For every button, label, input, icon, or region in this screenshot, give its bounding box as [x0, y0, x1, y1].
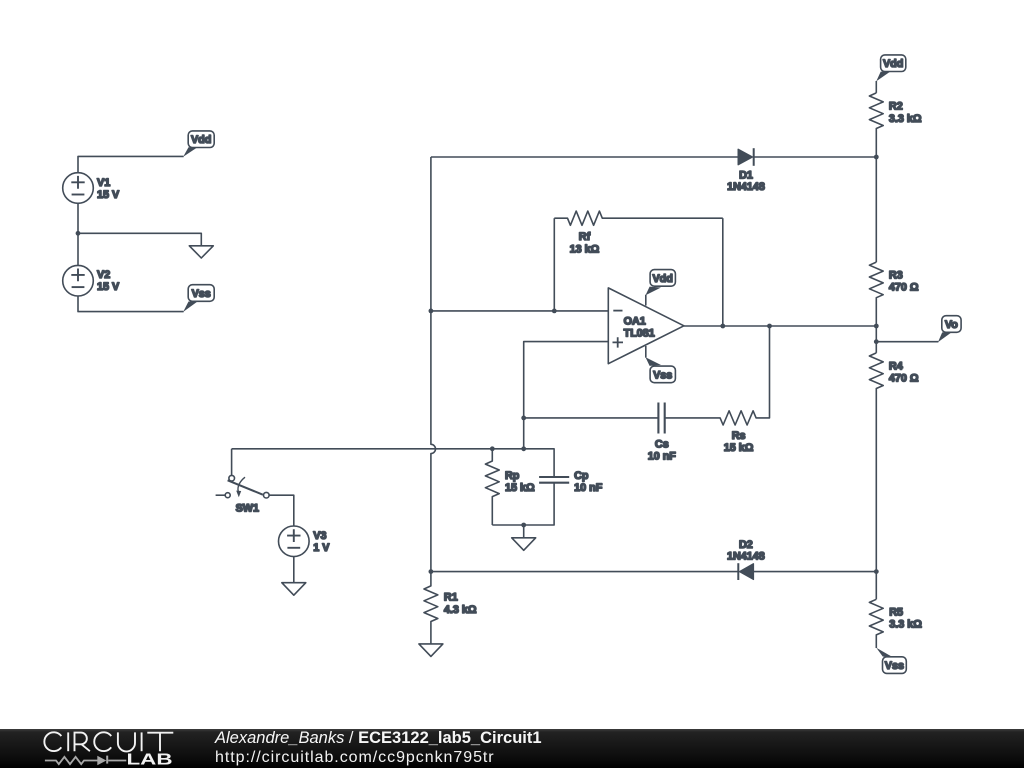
- svg-text:13 kΩ: 13 kΩ: [570, 243, 600, 255]
- label Cp 10 nF: [574, 470, 603, 494]
- svg-text:1N4148: 1N4148: [727, 550, 765, 562]
- svg-text:4.3 kΩ: 4.3 kΩ: [444, 604, 477, 616]
- wire top rail right part: [754, 156, 877, 158]
- label D2 1N4148: [727, 539, 765, 563]
- ground: [419, 644, 443, 657]
- label Rp 15 kOhm: [505, 470, 535, 494]
- svg-text:R5: R5: [889, 606, 903, 618]
- svg-text:3.3 kΩ: 3.3 kΩ: [889, 619, 922, 631]
- voltage source V1: [63, 173, 94, 204]
- ground: [512, 538, 536, 551]
- svg-text:10 nF: 10 nF: [648, 451, 677, 463]
- label Rf 13 kOhm: [570, 231, 600, 255]
- net flag Vdd right: [876, 55, 906, 81]
- svg-text:D1: D1: [739, 170, 753, 182]
- capacitor Cp: [539, 477, 569, 483]
- node R1 junction: [429, 569, 434, 574]
- resistor Rf: [554, 211, 723, 225]
- wire V3 to ground: [293, 557, 295, 583]
- resistor R5: [869, 599, 883, 648]
- svg-text:470 Ω: 470 Ω: [889, 373, 919, 385]
- svg-text:470 Ω: 470 Ω: [889, 282, 919, 294]
- svg-text:TL081: TL081: [624, 327, 655, 339]
- svg-text:1 V: 1 V: [313, 542, 330, 554]
- svg-text:Cs: Cs: [655, 438, 669, 450]
- wire SW1 to V3: [269, 495, 294, 526]
- label R3 470 Ohm: [889, 270, 919, 294]
- svg-text:Vdd: Vdd: [883, 58, 903, 70]
- svg-text:15 V: 15 V: [97, 189, 120, 201]
- node Cs junction on plus line: [521, 416, 526, 421]
- svg-text:V3: V3: [313, 530, 326, 542]
- svg-text:V1: V1: [97, 177, 110, 189]
- svg-text:V2: V2: [97, 269, 110, 281]
- node Vo junction: [874, 339, 879, 344]
- node D1 rail junction: [874, 155, 879, 160]
- svg-text:D2: D2: [739, 539, 753, 551]
- svg-text:Vdd: Vdd: [191, 134, 211, 146]
- svg-text:R1: R1: [444, 592, 458, 604]
- label R5 3.3 kOhm: [889, 606, 922, 630]
- label V3 1 V: [313, 530, 330, 554]
- resistor R2: [869, 93, 883, 262]
- footer bar: [0, 729, 1024, 768]
- wire ground stub: [523, 525, 525, 538]
- wire to Vo flag: [876, 341, 938, 343]
- svg-text:R4: R4: [889, 360, 903, 372]
- wire D2 rail right part: [754, 571, 877, 573]
- svg-text:Vss: Vss: [885, 660, 904, 672]
- wire junction to ground: [78, 233, 201, 246]
- wire Rf left vertical: [553, 218, 555, 311]
- node left rail junction: [429, 309, 434, 314]
- resistor R4: [869, 353, 883, 599]
- svg-text:15 kΩ: 15 kΩ: [505, 482, 535, 494]
- node output Rs junction: [767, 324, 772, 329]
- switch SW1: [216, 449, 270, 498]
- wire V1 top to Vdd flag: [78, 156, 184, 172]
- net flag Vss bottom: [876, 648, 906, 674]
- label V2 15 V: [97, 269, 120, 293]
- label V1 15 V: [97, 177, 120, 201]
- resistor R3: [869, 262, 883, 353]
- diode D1: [738, 148, 754, 166]
- resistor Rs: [665, 326, 770, 425]
- voltage source V3: [279, 526, 310, 557]
- svg-text:Vss: Vss: [192, 288, 211, 300]
- wire Rf right vertical to output: [722, 218, 724, 326]
- wire SW1 to Rp Cp top rail: [232, 449, 554, 477]
- node output junction right: [874, 324, 879, 329]
- node ground junction: [521, 523, 526, 528]
- label D1 1N4148: [727, 170, 765, 194]
- svg-text:3.3 kΩ: 3.3 kΩ: [889, 113, 922, 125]
- svg-text:15 kΩ: 15 kΩ: [724, 442, 754, 454]
- resistor Rp: [485, 449, 499, 525]
- footer url: [215, 749, 495, 767]
- svg-text:OA1: OA1: [624, 315, 646, 327]
- svg-text:R3: R3: [889, 270, 903, 282]
- svg-text:15 V: 15 V: [97, 281, 120, 293]
- wire left vertical with hop: [431, 157, 436, 572]
- op-amp OA1: [608, 288, 684, 364]
- svg-text:R2: R2: [889, 101, 903, 113]
- svg-text:Vss: Vss: [653, 369, 672, 381]
- wire Vdd to R2: [875, 81, 877, 93]
- wire D2 rail left part: [431, 571, 738, 573]
- net flag Vdd op-amp: [646, 270, 676, 296]
- svg-text:1N4148: 1N4148: [727, 181, 765, 193]
- net flag Vdd left: [183, 131, 214, 157]
- net flag Vss op-amp: [646, 357, 676, 382]
- label R2 3.3 kOhm: [889, 101, 922, 125]
- label OA1 TL081: [624, 315, 655, 339]
- svg-text:Rp: Rp: [505, 470, 520, 482]
- svg-text:10 nF: 10 nF: [574, 482, 603, 494]
- resistor R1: [424, 572, 438, 644]
- CircuitLab logo: [0, 729, 190, 768]
- label R4 470 Ohm: [889, 360, 919, 384]
- junction node: [76, 231, 81, 236]
- wire non-inverting input: [524, 342, 609, 449]
- footer title: [215, 729, 542, 748]
- wire Cp bottom lead: [492, 483, 554, 525]
- svg-text:SW1: SW1: [236, 503, 259, 515]
- ground: [282, 583, 306, 596]
- svg-text:Rs: Rs: [732, 430, 746, 442]
- svg-text:Rf: Rf: [579, 231, 591, 243]
- wire top rail left part: [431, 156, 738, 158]
- wire inverting input: [431, 310, 608, 312]
- node plus line junction: [521, 446, 526, 451]
- svg-text:Cp: Cp: [574, 470, 589, 482]
- capacitor Cs: [658, 403, 664, 434]
- wire Cs left lead: [524, 417, 659, 419]
- ground: [189, 246, 213, 258]
- label Rs 15 kOhm: [724, 430, 754, 454]
- voltage source V2: [63, 265, 94, 296]
- wire V1 to V2: [77, 203, 79, 265]
- label SW1: [236, 503, 259, 515]
- net flag Vss left: [183, 285, 214, 312]
- node output Rf junction: [720, 324, 725, 329]
- svg-text:Vo: Vo: [945, 319, 958, 331]
- node D2 rail junction: [874, 569, 879, 574]
- node Rp top junction: [490, 446, 495, 451]
- wire output rail: [684, 325, 876, 327]
- node inverting junction: [552, 309, 557, 314]
- svg-text:Vdd: Vdd: [652, 273, 672, 285]
- label R1 4.3 kOhm: [444, 592, 477, 616]
- svg-text:LAB: LAB: [127, 750, 173, 768]
- label Cs 10 nF: [648, 438, 677, 462]
- diode D2: [738, 563, 753, 580]
- net flag Vo: [938, 316, 961, 342]
- wire V2 bottom to Vss flag: [78, 296, 184, 312]
